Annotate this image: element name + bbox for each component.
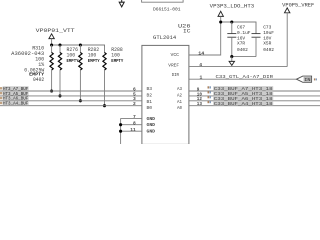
svg-text:11: 11 (130, 127, 136, 133)
label net C33_BUF_A4_HT3_18 (208, 101, 274, 107)
svg-text:EMPTY: EMPTY (111, 59, 123, 64)
svg-text:100: 100 (67, 53, 76, 59)
resistor R310 labels (11, 45, 44, 83)
resistor R276 labels (67, 47, 79, 64)
svg-text:EMPTY: EMPTY (67, 59, 79, 64)
svg-text:X5R: X5R (263, 41, 271, 47)
svg-text:14: 14 (198, 51, 204, 57)
wire VP3P3 rail to caps (221, 22, 256, 34)
page ref colored (314, 78, 317, 80)
wire cap ground rail (232, 56, 256, 58)
svg-text:C67: C67 (237, 25, 245, 31)
port IN off-page tag (297, 76, 312, 83)
svg-text:VP0P91_VTT: VP0P91_VTT (36, 28, 75, 34)
svg-text:VREF: VREF (168, 62, 179, 68)
svg-text:B0: B0 (147, 107, 153, 111)
capacitor C67 (227, 22, 236, 57)
pin 9 (A3) (177, 86, 200, 92)
wire VCC pin 14 (189, 22, 221, 55)
pin 3 (B1) (133, 96, 153, 105)
power VP3P3_LDO_HT3 arrow (218, 11, 223, 22)
svg-text:HT3_A4_BUF: HT3_A4_BUF (3, 101, 29, 107)
svg-text:GND: GND (147, 117, 156, 122)
svg-text:DIR: DIR (172, 72, 180, 78)
resistor R282 labels (88, 47, 100, 64)
svg-text:4: 4 (199, 62, 202, 68)
wire DIR pin 1 (189, 78, 297, 80)
op IC U26 GTL2014 box (142, 45, 189, 144)
svg-text:10uF: 10uF (263, 30, 274, 36)
svg-text:IC: IC (183, 28, 191, 34)
label net HT3_A5_BUF (0, 91, 29, 97)
wire VREF pin 4 (189, 66, 287, 68)
svg-text:C73: C73 (263, 25, 271, 31)
svg-text:0402: 0402 (263, 47, 274, 53)
pin 10 (A2) (177, 91, 202, 98)
pin 13 (A0) (177, 101, 202, 111)
wire bus HT3_A6_BUF (0, 100, 142, 102)
wire VTT rail (52, 45, 105, 47)
wire GND bundle vertical (120, 118, 122, 144)
pin 2 (B0) (133, 101, 153, 111)
wire bus HT3_A7_BUF (0, 90, 142, 92)
svg-text:C33_GTL_A4-A7_DIR: C33_GTL_A4-A7_DIR (216, 74, 274, 80)
svg-text:100: 100 (111, 53, 120, 59)
pin 7 (GND) (121, 114, 156, 122)
wire bus HT3_A4_BUF (0, 105, 142, 107)
resistor R288 (103, 45, 106, 107)
ground VSS down-arrow top-left (119, 0, 124, 7)
label net C33_BUF_A6_HT3_18 (208, 96, 274, 102)
pin 5 (B2) (133, 91, 153, 98)
capacitor C73 labels (263, 25, 274, 53)
svg-text:7: 7 (133, 114, 136, 120)
svg-text:B1: B1 (147, 101, 153, 105)
label net HT3_A6_BUF (0, 96, 29, 102)
label net HT3_A7_BUF (0, 86, 29, 92)
svg-text:X7R: X7R (237, 41, 245, 47)
wire net C33_BUF_A6_HT3_18 (189, 100, 320, 102)
ground arrow under caps (229, 57, 234, 66)
resistor R288 labels (111, 47, 123, 64)
label net HT3_A4_BUF (0, 101, 29, 107)
svg-text:VP3P3_LDO_HT3: VP3P3_LDO_HT3 (210, 3, 255, 9)
svg-text:D66151-001: D66151-001 (153, 7, 181, 13)
label net C33_BUF_A5_HT3_18 (208, 91, 274, 97)
svg-text:13: 13 (197, 101, 202, 107)
wire net C33_BUF_A7_HT3_18 (189, 90, 320, 92)
power VP0P5_VREF arrow (285, 8, 290, 67)
component box (cut off at top) (142, 0, 184, 2)
capacitor C73 (252, 22, 261, 57)
svg-text:0402: 0402 (33, 77, 44, 83)
svg-text:A2: A2 (177, 95, 182, 99)
svg-text:GND: GND (147, 123, 156, 128)
svg-text:0402: 0402 (237, 47, 248, 53)
svg-text:VCC: VCC (171, 52, 180, 58)
svg-text:GTL2014: GTL2014 (153, 35, 176, 41)
wire net C33_BUF_A5_HT3_18 (189, 95, 320, 97)
svg-text:16V: 16V (237, 35, 245, 41)
power VP0P91_VTT arrow (49, 34, 54, 45)
pin 6 (B3) (133, 86, 153, 92)
pin 8 (GND) (121, 120, 156, 128)
node GND junctions (119, 123, 122, 133)
label net C33_BUF_A7_HT3_18 (208, 86, 274, 92)
svg-text:A3: A3 (177, 88, 182, 92)
svg-text:B3: B3 (147, 88, 153, 92)
svg-text:A0: A0 (177, 107, 182, 111)
resistor R276 (58, 45, 61, 97)
svg-text:B2: B2 (147, 95, 153, 99)
svg-text:2: 2 (133, 101, 136, 107)
node rail junctions (50, 43, 82, 46)
resistor R310 (50, 45, 53, 93)
svg-text:0.1uF: 0.1uF (237, 30, 251, 36)
capacitor C67 labels (237, 25, 251, 53)
svg-text:1: 1 (200, 75, 203, 81)
wire bus HT3_A5_BUF (0, 95, 142, 97)
svg-text:100: 100 (88, 53, 97, 59)
resistor R282 (79, 45, 82, 102)
pin 11 (GND) (121, 127, 156, 135)
pin 12 (A1) (177, 96, 202, 105)
svg-text:IN: IN (304, 77, 311, 83)
wire net C33_BUF_A4_HT3_18 (189, 105, 320, 107)
svg-text:C33_BUF_A4_HT3_18: C33_BUF_A4_HT3_18 (214, 101, 273, 107)
svg-text:EMPTY: EMPTY (88, 59, 100, 64)
svg-text:8: 8 (133, 120, 136, 126)
svg-text:A1: A1 (177, 101, 182, 105)
svg-text:10V: 10V (263, 35, 271, 41)
svg-text:GND: GND (147, 130, 156, 135)
